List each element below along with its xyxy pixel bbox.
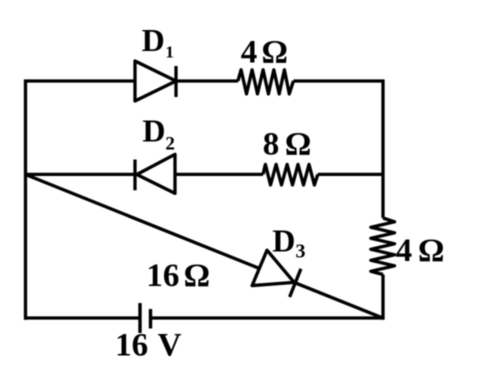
svg-text:4: 4: [241, 35, 257, 71]
svg-text:Ω: Ω: [184, 258, 210, 294]
svg-text:V: V: [158, 328, 182, 364]
svg-text:16: 16: [146, 258, 179, 294]
svg-text:Ω: Ω: [262, 35, 288, 71]
svg-text:8: 8: [263, 127, 280, 163]
svg-text:Ω: Ω: [285, 127, 311, 163]
svg-text:D: D: [272, 223, 295, 259]
svg-text:3: 3: [296, 240, 306, 262]
svg-text:4: 4: [396, 233, 413, 269]
svg-text:2: 2: [165, 133, 175, 154]
svg-text:Ω: Ω: [418, 233, 444, 269]
svg-text:16: 16: [115, 328, 148, 364]
svg-text:1: 1: [165, 42, 174, 61]
svg-text:D: D: [142, 112, 165, 148]
svg-text:D: D: [142, 22, 165, 58]
